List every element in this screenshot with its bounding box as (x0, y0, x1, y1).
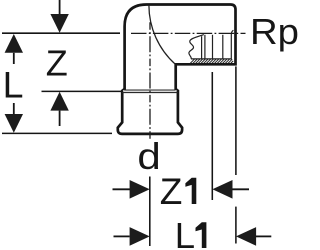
wire inner elbow arc (149, 5, 176, 64)
wire centerline vertical extension below (149, 177, 151, 247)
node thread hatching (190, 59, 233, 63)
node thread vertical 0 (201, 36, 203, 59)
node thread broken-out squiggle (189, 35, 204, 59)
wire Z1 extension line (211, 72, 213, 200)
node L-dim lower arrow (down) (5, 103, 23, 133)
wire extension-line for L/Z dimension at socket axis level (2, 32, 120, 34)
node L-dim upper arrow (up) (5, 34, 23, 64)
svg-text:Rp: Rp (250, 11, 299, 52)
node thread vertical 3 (222, 35, 224, 59)
node Z1 right arrow (points left) (212, 180, 249, 199)
node bore line (191, 58, 231, 60)
node thread vertical 1 (204, 35, 206, 59)
press socket outline with end bead (118, 89, 182, 134)
wire extension-line at press-socket insertion depth (Z bottom) (42, 90, 122, 92)
node label Z1 (160, 171, 197, 212)
wire centerline vertical (axis of press socket) (149, 22, 151, 140)
svg-text:L: L (3, 64, 24, 106)
wire centerline horizontal (axis of Rp socket) (131, 32, 246, 34)
node Z-dim upper arrow (down) (50, 0, 68, 33)
wire L1 extension line lower segment (235, 207, 237, 244)
node socket mouth lines (122, 90, 177, 93)
node label L1 (175, 215, 207, 250)
elbow body outer contour (90 deg fitting) (125, 5, 236, 91)
node Z1 left arrow (points right) (113, 180, 150, 199)
node L1 left arrow (points right) (114, 227, 150, 246)
wire extension-line at press-socket end face (L bottom) (2, 132, 112, 134)
node end chamfer line (231, 30, 233, 59)
node thread vertical 2 (212, 35, 214, 59)
svg-text:d: d (137, 135, 160, 177)
svg-text:Z: Z (46, 42, 68, 83)
svg-text:L: L (175, 215, 195, 250)
wire L1 extension line (235, 66, 237, 175)
svg-text:Z: Z (160, 171, 183, 212)
node L1 right arrow (points left) (236, 227, 271, 246)
node Z-dim lower arrow (up) (50, 92, 68, 126)
